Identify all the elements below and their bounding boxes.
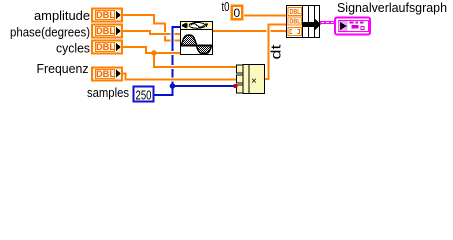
cell dt [288,17,302,25]
control terminal Frequenz DBL [92,68,122,81]
wire waveform (dashed magenta) [320,21,336,24]
svg-text:DBL: DBL [96,10,116,20]
svg-text:amplitude: amplitude [34,9,90,23]
multiply node [237,65,265,94]
wire Frequenz to multiply input 2 [122,74,236,80]
svg-text:250: 250 [136,88,152,103]
speaker glyph [182,23,188,29]
svg-text:dt: dt [269,44,284,59]
input cell 3 [237,85,244,93]
svg-text:Frequenz: Frequenz [37,62,89,76]
svg-text:cycles: cycles [56,42,90,56]
svg-text:DBL: DBL [290,19,302,26]
control terminal cycles DBL [92,41,122,54]
wire cycles branch to multiply input 1 [154,53,236,67]
wire amplitude [122,15,180,41]
svg-text:phase(degrees): phase(degrees) [10,26,90,40]
constant t0 value 0 [232,6,243,20]
wire phase(degrees) [160,32,170,36]
control terminal phase DBL [92,25,122,38]
svg-text:t0: t0 [222,0,230,14]
svg-text:DBL: DBL [96,26,116,36]
indicator terminal Signalverlaufsgraph [335,18,370,35]
cell t0 [288,8,302,16]
junction samples [170,83,176,89]
svg-text:0: 0 [234,6,241,20]
wire dt from multiply output [265,25,289,80]
svg-text:DBL: DBL [96,42,116,52]
oval with sine [189,23,205,29]
wire samples (blue) [154,27,180,95]
input cell 2 [237,75,244,83]
constant samples 250 [134,87,154,103]
wire crossing: cycles branch over samples [168,65,178,69]
svg-text:samples: samples [87,86,129,100]
control terminal amplitude DBL [92,9,122,22]
svg-text:Signalverlaufsgraph: Signalverlaufsgraph [337,1,447,15]
build arrow [303,18,321,31]
wire crossing: Frequenz over samples [168,78,178,82]
build waveform node [287,6,321,38]
coercion dot [233,84,237,88]
wire cycles [122,47,180,53]
wire samples branch to multiply input 3 [173,85,237,87]
svg-text:DBL: DBL [96,69,116,79]
sine pattern VI icon [181,22,213,55]
svg-text:DBL: DBL [290,9,302,16]
cell Y array [288,28,302,36]
svg-text:×: × [251,76,257,87]
wire sine output to build waveform Y [213,30,289,32]
input cell 1 [237,65,244,73]
junction cycles [151,50,157,56]
wire crossing: cycles over samples [168,51,178,55]
wire t0 [244,15,289,17]
mini graph pattern [350,22,354,24]
